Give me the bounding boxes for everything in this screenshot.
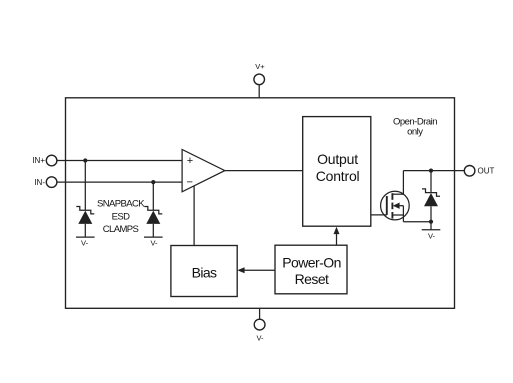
wire V+ lead [258, 85, 260, 98]
wire U1 to Bias [193, 186, 195, 246]
wire IN+ net [57, 160, 182, 162]
wire IN- net [57, 181, 182, 183]
svg-text:only: only [407, 126, 423, 137]
svg-text:ESD: ESD [112, 211, 130, 222]
svg-text:+: + [187, 155, 193, 167]
svg-text:OUT: OUT [478, 167, 495, 176]
wire source of Q1 to V- [403, 221, 431, 223]
node J2 on IN- [151, 180, 155, 184]
terminal IN+ [46, 155, 57, 166]
wire arrow Power-On Reset to Bias [243, 269, 275, 271]
transistor Q1 NMOS open-drain [381, 191, 410, 221]
wire D3 to V- rail [430, 222, 432, 230]
block Output Control [303, 117, 371, 227]
svg-text:Reset: Reset [295, 271, 329, 287]
wire IN+ to ESD clamp D1 [84, 161, 86, 211]
terminal OUT [464, 166, 475, 177]
wire U1 output to Output Control [225, 170, 303, 172]
wire IN- to ESD clamp D2 [152, 182, 154, 210]
wire gate lead Output Control to Q1 [371, 214, 387, 216]
wire OUT net [403, 170, 464, 172]
wire drain of Q1 to OUT net [402, 171, 404, 195]
V- rail bar for D3 [422, 229, 441, 231]
diode D3 snapback output clamp [422, 189, 440, 222]
label Open-Drain only [393, 116, 437, 137]
label SNAPBACK ESD CLAMPS [97, 199, 145, 236]
svg-text:Control: Control [316, 168, 360, 184]
block Power-On Reset [275, 245, 347, 294]
svg-text:V-: V- [428, 231, 436, 240]
node J3 OUT net [429, 169, 433, 173]
wire arrow Power-On Reset to Output Control [336, 233, 338, 246]
terminal IN- [46, 177, 57, 188]
svg-text:IN+: IN+ [32, 156, 45, 165]
svg-text:Bias: Bias [192, 264, 217, 280]
svg-text:SNAPBACK: SNAPBACK [97, 199, 145, 210]
label Power-On Reset [282, 255, 341, 288]
svg-text:V-: V- [150, 238, 158, 247]
wire V- lead [259, 308, 261, 319]
terminal V+ [254, 74, 265, 85]
op-amp U1 comparator [182, 150, 225, 192]
V- rail bar for D1 [76, 236, 95, 238]
svg-text:Power-On: Power-On [282, 255, 341, 271]
IC package boundary [66, 98, 455, 308]
node J4 source/diode junction [429, 220, 433, 224]
svg-text:−: − [186, 177, 192, 189]
svg-text:IN-: IN- [34, 178, 45, 187]
V- rail bar for D2 [144, 236, 163, 238]
svg-text:CLAMPS: CLAMPS [103, 224, 139, 235]
svg-text:V+: V+ [255, 62, 265, 71]
svg-text:Output: Output [317, 151, 358, 167]
diode D2 snapback ESD clamp [144, 207, 162, 238]
wire OUT net to diode D3 [430, 171, 432, 193]
node J1 on IN+ [83, 158, 87, 162]
block Bias [171, 246, 237, 297]
terminal V- [254, 319, 265, 330]
diode D1 snapback ESD clamp [76, 207, 94, 238]
svg-text:V-: V- [81, 238, 89, 247]
svg-text:V-: V- [256, 334, 264, 343]
label Output Control [316, 151, 360, 184]
